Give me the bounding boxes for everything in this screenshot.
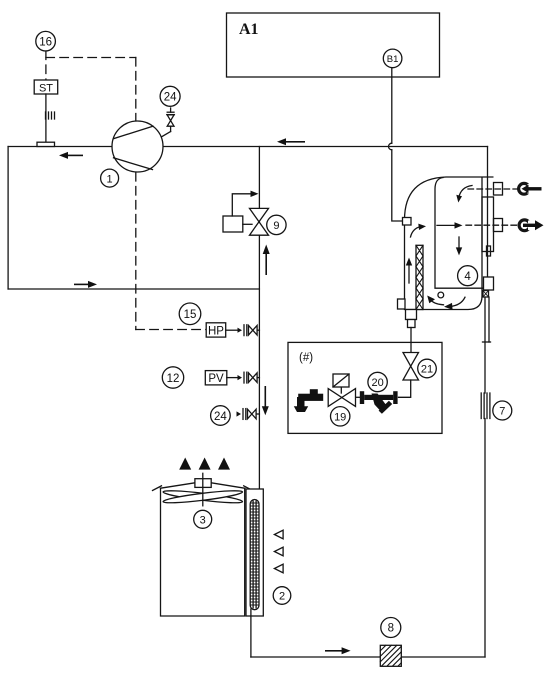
label circle 16	[36, 31, 56, 51]
right riser pipe lower	[484, 297, 486, 657]
fan motor	[195, 473, 211, 506]
controller box A1	[227, 13, 440, 77]
svg-text:4: 4	[464, 271, 471, 283]
svg-text:15: 15	[184, 309, 197, 321]
tank right heat plate	[482, 197, 494, 256]
control dashed line 16 to compressor	[46, 58, 136, 122]
flow arrow right bottom	[325, 647, 351, 654]
water outlet symbol	[519, 220, 543, 231]
tank right bottom fitting	[483, 277, 494, 297]
jacket inlet curved arrow	[411, 224, 427, 237]
main top pipe	[8, 146, 487, 148]
pressure switch HP box	[206, 323, 226, 338]
flow arrow right on left loop	[74, 281, 97, 288]
tank drain dot	[438, 292, 444, 298]
air flow triangles up	[179, 458, 230, 470]
svg-text:12: 12	[167, 373, 180, 385]
flow arrow up below valve 9	[263, 245, 270, 276]
flow arrow left (discharge header)	[277, 138, 305, 145]
svg-text:20: 20	[371, 377, 383, 389]
label circle 8	[381, 618, 401, 638]
tank sensor tab B1	[403, 218, 412, 226]
evaporator coil housing 2	[246, 489, 263, 616]
tank swirl arrow lower	[444, 297, 465, 310]
svg-text:24: 24	[214, 411, 227, 423]
dashed water line top	[468, 188, 517, 190]
svg-text:HP: HP	[208, 326, 224, 338]
label circle 24 top	[160, 86, 180, 106]
left riser pipe	[7, 147, 9, 290]
condenser coil in tank	[416, 245, 423, 309]
svg-text:16: 16	[39, 37, 52, 49]
pilot solenoid of valve 9	[223, 194, 252, 232]
label circle 4	[458, 266, 478, 286]
solenoid valve 19	[328, 374, 355, 406]
compressor 1	[112, 121, 163, 172]
PV service valve	[227, 372, 260, 383]
pipe valve 21 to strainer	[399, 380, 411, 397]
flow arrow left (suction)	[59, 152, 83, 159]
air flow triangles left	[274, 530, 283, 573]
tank flow arrow up in jacket	[406, 258, 412, 284]
charge service valve 24	[237, 409, 260, 420]
pipe tank to valve 21	[410, 328, 412, 353]
middle vertical pipe	[258, 147, 260, 502]
capillary 7 hatch	[481, 393, 490, 419]
fan 3 blades	[163, 488, 243, 505]
svg-text:B1: B1	[387, 54, 399, 65]
tank flow arrow down	[456, 237, 462, 255]
flow arrow down on middle pipe	[262, 386, 269, 415]
svg-text:8: 8	[388, 623, 394, 635]
coil outlet pipe	[250, 609, 252, 657]
label circle 15	[179, 303, 201, 325]
HP service valve	[226, 325, 260, 336]
label circle 24 mid	[211, 406, 231, 426]
bottom pipe of left loop	[8, 288, 259, 290]
label circle 21	[418, 359, 437, 378]
tank left drain tab	[398, 299, 406, 309]
control dashed line 16 to ST	[45, 51, 47, 80]
valve 21	[403, 353, 419, 381]
starter ST box	[34, 80, 58, 95]
control dashed line compressor to HP	[136, 173, 206, 330]
pipe strainer to valve 19	[356, 396, 361, 398]
capillary pipe double wall	[483, 297, 491, 342]
svg-text:21: 21	[421, 364, 433, 376]
svg-text:ST: ST	[39, 83, 53, 95]
fan shroud ticks	[153, 486, 253, 491]
ST lead wire	[45, 94, 47, 142]
tank top port	[494, 183, 503, 196]
right riser pipe upper	[487, 147, 489, 278]
label circle 20	[368, 372, 387, 391]
tank bottom port	[494, 219, 503, 232]
svg-text:2: 2	[279, 591, 285, 603]
svg-text:19: 19	[334, 412, 346, 424]
svg-text:1: 1	[107, 173, 113, 185]
label circle 7	[493, 401, 512, 420]
fan unit box	[161, 483, 245, 616]
bottom pipe	[251, 656, 485, 658]
svg-text:3: 3	[200, 515, 206, 527]
service valve 24 top	[162, 108, 175, 137]
water inlet symbol	[519, 183, 542, 194]
svg-text:PV: PV	[208, 373, 224, 385]
evaporator coil core	[250, 500, 259, 610]
svg-text:7: 7	[499, 406, 505, 418]
label circle 12	[162, 367, 183, 388]
tank flow arrow curved top	[456, 186, 472, 203]
label circle 19	[331, 407, 350, 426]
svg-text:(#): (#)	[299, 352, 313, 364]
ST capillary hatch	[46, 112, 55, 119]
label circle 3	[194, 510, 212, 528]
expansion valve 9	[250, 208, 269, 235]
tank bottom fitting	[406, 310, 417, 328]
label circle 1	[101, 169, 119, 187]
drain faucet	[294, 389, 323, 412]
tank swirl arrow left	[427, 296, 443, 305]
dashed water line bottom	[466, 224, 517, 226]
tank inner vessel	[435, 178, 483, 289]
drain group box #	[288, 342, 442, 433]
tank outer shell 4	[405, 177, 494, 310]
filter drier 8	[380, 645, 401, 666]
svg-text:A1: A1	[239, 21, 259, 38]
label circle 9	[267, 215, 286, 234]
strainer 20	[360, 391, 398, 414]
ST mounting flange	[37, 142, 55, 146]
label circle 2	[273, 587, 291, 605]
tank flow arrow right mid	[437, 222, 463, 228]
sensor B1	[383, 49, 402, 68]
wire B1 to tank	[388, 68, 402, 221]
svg-text:24: 24	[164, 92, 177, 104]
svg-text:9: 9	[273, 220, 279, 232]
pilot arrow into pipe	[251, 191, 259, 197]
pressure valve PV box	[205, 371, 227, 386]
